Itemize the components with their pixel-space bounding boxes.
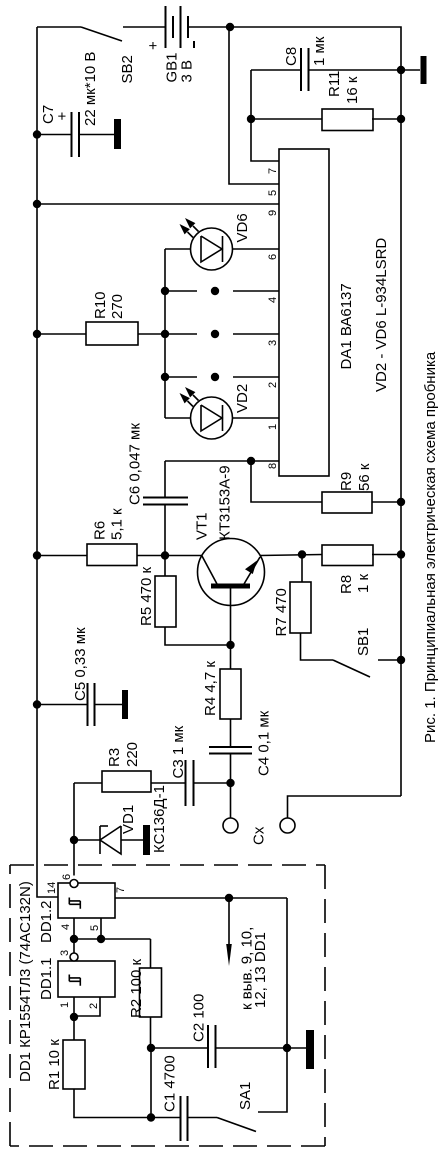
node omitted LED VD4 marker: [211, 330, 219, 338]
battery GB1 plate 2 (short): [172, 16, 174, 38]
gate DD1.2 hysteresis symbol: [69, 898, 80, 909]
svg-text:1 мк: 1 мк: [311, 36, 328, 66]
node R9/rail junction: [397, 498, 405, 506]
dashed box DD1 top edge: [10, 864, 325, 866]
wire C5 left lead: [37, 704, 88, 706]
resistor R11: [322, 109, 373, 131]
svg-text:R10: R10: [92, 291, 109, 319]
svg-text:С2 100: С2 100: [191, 994, 208, 1042]
svg-text:DD1.1: DD1.1: [38, 957, 55, 1000]
node VD1 branch junction: [70, 836, 78, 844]
dashed box DD1 left edge: [9, 865, 11, 1146]
svg-text:22 мк*10 В: 22 мк*10 В: [82, 52, 99, 126]
wire VT1 emitter row to R8: [260, 555, 322, 556]
resistor R8: [322, 545, 373, 566]
wire top row to SB2: [37, 26, 81, 28]
node pin4/pin3 junction: [70, 935, 78, 943]
VD6 emission arrow 2: [188, 232, 194, 238]
wire C8 branch to DA1 pin 7: [251, 70, 279, 161]
wire DD1.1 pin 1 lead to R1: [73, 997, 75, 1040]
wire R5 bottom lead to VT1 base line: [165, 627, 231, 645]
node emitter/R7/R8 junction: [298, 550, 306, 558]
switch SB2 blade: [81, 27, 122, 41]
svg-text:3: 3: [267, 340, 279, 346]
wire DD1.2 pin 7 row: [115, 897, 287, 899]
svg-text:DD1 КР1554ТЛ3 (74AC132N): DD1 КР1554ТЛ3 (74AC132N): [17, 881, 34, 1082]
svg-text:6: 6: [61, 874, 73, 880]
svg-text:Сх: Сх: [251, 826, 268, 845]
svg-text:КС136Д-1: КС136Д-1: [151, 785, 168, 853]
LED VD2: [191, 397, 233, 439]
svg-text:DA1 ВА6137: DA1 ВА6137: [338, 283, 355, 369]
wire GB1 minus to top-right corner: [188, 26, 230, 28]
wire DD1.2 pin 5 lead: [100, 918, 102, 939]
wire DD1.2 pin 4 lead: [73, 918, 75, 939]
wire R8 right lead to rail: [372, 554, 401, 556]
svg-text:4: 4: [60, 924, 72, 930]
gate DD1.2 output inversion circle (pin 6): [70, 880, 78, 888]
svg-text:1: 1: [267, 424, 279, 430]
wire R10 right lead to LED bus: [138, 333, 165, 335]
node pin1/pin2 junction: [70, 1013, 78, 1021]
battery GB1 plate 3 (long): [180, 6, 182, 48]
node SB1/rail junction: [397, 656, 405, 664]
svg-text:R1 10 к: R1 10 к: [46, 1039, 63, 1090]
wire R10 left lead: [37, 333, 86, 335]
resistor R7: [290, 582, 311, 633]
wire DA1 pin 2 row (right stub): [233, 376, 279, 378]
wire DA1 pin 8 row: [165, 460, 279, 462]
svg-text:R3: R3: [106, 748, 123, 767]
svg-text:3 В: 3 В: [179, 60, 196, 83]
wire DA1 pin 9 row: [37, 203, 279, 205]
svg-text:2: 2: [88, 1003, 100, 1009]
svg-text:С4 0,1 мк: С4 0,1 мк: [256, 710, 273, 776]
switch SB1 blade: [333, 660, 370, 677]
node omitted LED VD3 marker: [211, 373, 219, 381]
wire C2 right lead to ground: [216, 1047, 288, 1049]
node bus/pin2 row junction: [161, 373, 169, 381]
node pin8/R9 branch junction: [247, 457, 255, 465]
svg-text:R11: R11: [326, 71, 343, 97]
svg-text:КТ3153А-9: КТ3153А-9: [217, 465, 234, 540]
svg-text:2: 2: [267, 382, 279, 388]
node bus/R10 junction: [161, 330, 169, 338]
svg-text:7: 7: [115, 887, 127, 893]
node pin5 junction: [97, 935, 105, 943]
node base line/R5 junction: [226, 641, 234, 649]
wire VT1 base lead down: [230, 586, 232, 669]
switch SA1 blade: [217, 1118, 256, 1132]
svg-text:16 к: 16 к: [344, 76, 361, 104]
svg-text:14: 14: [46, 882, 58, 894]
wire DA1 pin 1 row through VD2: [165, 417, 279, 419]
wire R7 top lead: [301, 555, 303, 583]
svg-text:SB2: SB2: [119, 55, 136, 83]
wire C7 left lead: [37, 134, 72, 136]
svg-text:SB1: SB1: [355, 628, 372, 656]
wire LED anode bus: [164, 249, 166, 418]
VD2 emission arrow 2: [188, 401, 194, 407]
wire R2 top lead: [150, 939, 152, 968]
wire positive rail (left): [37, 27, 58, 897]
node pin7 row/arrow stub junction: [225, 894, 233, 902]
wire C3 right lead to base line: [194, 782, 231, 784]
gate DD1.1 output inversion circle (pin 3): [70, 953, 78, 961]
capacitor C6: [143, 497, 188, 499]
arrow stub to pins 9,10,12,13: [228, 898, 230, 950]
svg-text:220: 220: [124, 742, 141, 767]
wire DA1 pin 4 row (right stub): [233, 290, 279, 292]
VD2 emission arrow 1: [193, 395, 199, 401]
wire DA1 pin 3 row (right stub): [233, 333, 279, 335]
svg-text:R6: R6: [92, 521, 109, 540]
svg-text:5,1 к: 5,1 к: [109, 508, 126, 540]
wire R9 right lead to rail: [372, 501, 401, 503]
wire SA1 contact up to pin7 row: [258, 898, 287, 1112]
svg-text:1: 1: [59, 1002, 71, 1008]
svg-text:12, 13 DD1: 12, 13 DD1: [252, 932, 269, 1008]
svg-text:5: 5: [89, 925, 101, 931]
wire R2 bottom lead: [150, 1017, 152, 1048]
svg-text:1 к: 1 к: [355, 573, 372, 593]
wire C2 left lead: [151, 1047, 208, 1049]
node C2/SA1/ground junction: [283, 1044, 291, 1052]
gate DD1.1 body: [58, 961, 115, 997]
wire right probe terminal to rail: [288, 796, 402, 818]
battery GB1 plate 1 (+ long): [165, 6, 167, 48]
svg-text:VD6: VD6: [234, 213, 251, 242]
svg-text:R9: R9: [338, 472, 355, 491]
svg-text:R5 470 к: R5 470 к: [138, 566, 155, 626]
svg-text:С6 0,047 мк: С6 0,047 мк: [127, 423, 144, 505]
battery GB1 plate 4 (short): [187, 16, 189, 38]
node C3/base line junction: [226, 779, 234, 787]
wire C6 top lead: [164, 461, 166, 498]
LED VD6: [191, 228, 233, 270]
wire R11 right lead to rail: [372, 118, 401, 120]
capacitor C5: [87, 683, 89, 726]
node R10/left rail junction: [33, 330, 41, 338]
capacitor C8: [300, 48, 302, 91]
wire R3 left lead: [74, 782, 102, 784]
resistor R1: [63, 1040, 85, 1089]
wire SB2 contact to GB1: [123, 26, 165, 28]
wire R9 left lead: [251, 461, 322, 502]
resistor R3: [102, 771, 151, 792]
svg-text:6: 6: [267, 254, 279, 260]
node R6/C6/R5 junction: [161, 551, 169, 559]
label GB1 minus sign: [193, 41, 195, 48]
resistor R5: [155, 576, 176, 627]
wire C6 bottom lead: [164, 505, 166, 556]
wire VD1 cathode lead: [74, 839, 100, 841]
node R6/left rail junction: [33, 551, 41, 559]
wire negative rail (right): [230, 27, 401, 796]
node pin9 row/left rail junction: [33, 200, 41, 208]
IC DA1 body: [279, 149, 329, 476]
capacitor C4: [209, 746, 252, 748]
transistor VT1: [198, 539, 265, 606]
VD6 emission arrow 1: [193, 226, 199, 232]
ground at C7: [114, 119, 121, 149]
node R8/rail junction: [397, 550, 405, 558]
wire VD1 anode lead to ground: [121, 839, 143, 841]
node C8/ground/rail junction: [397, 66, 405, 74]
capacitor C1: [180, 1096, 182, 1141]
ground at DD1: [306, 1030, 314, 1069]
svg-text:VT1: VT1: [194, 512, 211, 540]
svg-text:R8: R8: [338, 575, 355, 594]
svg-text:С5 0,33 мк: С5 0,33 мк: [72, 627, 89, 701]
ground top right: [421, 56, 427, 84]
wire C5 right lead to ground: [95, 704, 123, 706]
node R11/pin7 branch junction: [247, 115, 255, 123]
wire SB1 contact to rail: [378, 659, 401, 661]
probe terminal Cx left: [223, 818, 238, 833]
node R2/C2 junction: [147, 1044, 155, 1052]
node R1/C1 row junction: [147, 1113, 155, 1121]
ground at VD1: [143, 825, 150, 855]
wire branch to DA1 pin 5: [229, 27, 279, 184]
node bus/pin4 row junction: [161, 287, 169, 295]
node omitted LED VD5 marker: [211, 287, 219, 295]
resistor R2: [140, 968, 162, 1017]
svg-text:R4 4,7 к: R4 4,7 к: [202, 661, 219, 716]
wire DA1 pin 4 row (left stub): [165, 290, 197, 292]
svg-text:5: 5: [267, 190, 279, 196]
gate DD1.1 hysteresis symbol: [69, 975, 80, 986]
capacitor C2: [207, 1025, 209, 1068]
svg-text:С1 4700: С1 4700: [162, 1055, 179, 1112]
wire ground stub at DD1: [287, 1047, 306, 1049]
gate DD1.2 body: [58, 883, 115, 918]
svg-text:С8: С8: [283, 47, 300, 66]
wire C8 left lead: [251, 69, 301, 71]
ground at C5: [122, 690, 128, 719]
svg-text:DD1.2: DD1.2: [38, 900, 55, 943]
wire link C2 row to C1 row: [150, 1048, 152, 1118]
wire R7 bottom lead to SB1: [301, 633, 334, 660]
svg-text:VD1: VD1: [120, 805, 137, 834]
wire C8 right lead to rail: [309, 69, 402, 71]
svg-text:R2 100 к: R2 100 к: [128, 958, 145, 1018]
wire DD1.1 pin 3 lead: [73, 939, 75, 953]
resistor R10: [86, 322, 138, 345]
wire ground stub top right: [401, 69, 420, 71]
svg-text:8: 8: [267, 463, 279, 469]
node R11/rail junction: [397, 115, 405, 123]
svg-text:3: 3: [59, 950, 71, 956]
wire C1 right lead to SA1: [188, 1117, 218, 1119]
wire DD1.1 pin 2 lead: [74, 997, 100, 1016]
capacitor C7: [71, 112, 73, 157]
wire R6 left lead: [37, 555, 87, 557]
wire R11 left lead: [251, 118, 322, 120]
wire R3 right lead to C3: [151, 782, 186, 784]
wire R4 bottom lead: [230, 719, 232, 747]
wire DA1 pin 3 row (left stub): [165, 333, 197, 335]
wire R3/VD1 branch down to DD1.2 pin 6: [73, 783, 75, 876]
capacitor C3: [185, 760, 187, 806]
svg-text:SA1: SA1: [237, 1082, 254, 1110]
dashed box DD1 right edge: [324, 865, 326, 1146]
svg-text:+: +: [145, 41, 162, 50]
wire R1 bottom lead to C1: [74, 1089, 181, 1118]
svg-text:С3 1 мк: С3 1 мк: [170, 725, 187, 778]
node battery/rail junction: [226, 23, 234, 31]
resistor R6: [87, 544, 137, 566]
zener diode VD1: [99, 826, 101, 854]
svg-text:4: 4: [267, 297, 279, 303]
resistor R4: [220, 669, 241, 719]
wire R6 right lead to VT1 base: [137, 555, 202, 557]
svg-text:9: 9: [267, 210, 279, 216]
svg-text:VD2 - VD6 L-934LSRD: VD2 - VD6 L-934LSRD: [373, 238, 390, 392]
wire C7 right lead to ground: [79, 134, 114, 136]
svg-text:56 к: 56 к: [356, 463, 373, 491]
svg-text:270: 270: [109, 294, 126, 319]
wire C4 bottom lead to probe terminal: [230, 754, 232, 819]
probe terminal Cx right: [280, 818, 295, 833]
svg-text:VD2: VD2: [234, 384, 251, 413]
resistor R9: [322, 492, 372, 513]
wire DA1 pin 2 row (left stub): [165, 376, 197, 378]
wire pins 4/5 row to R2: [74, 938, 151, 940]
node C5/left rail junction: [33, 700, 41, 708]
svg-text:Рис. 1. Принципиальная электри: Рис. 1. Принципиальная электрическая схе…: [422, 351, 439, 743]
wire DA1 pin 6 row through VD6: [165, 248, 279, 250]
svg-text:7: 7: [267, 168, 279, 174]
svg-text:+: +: [54, 112, 71, 121]
dashed box DD1 bottom edge: [10, 1145, 325, 1147]
node C7/left rail junction: [33, 130, 41, 138]
svg-text:R7 470: R7 470: [273, 588, 290, 636]
wire R5 top lead: [164, 556, 166, 577]
